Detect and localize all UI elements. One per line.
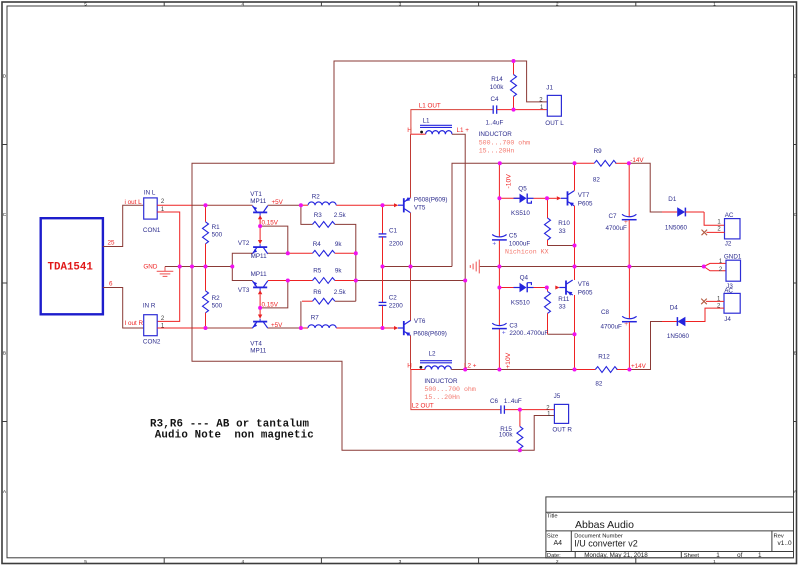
svg-text:33: 33 [559, 304, 567, 311]
svg-text:2: 2 [556, 2, 559, 8]
wire CON2 pin1 rail [157, 327, 205, 329]
svg-text:R12: R12 [598, 353, 610, 360]
svg-text:R9: R9 [594, 148, 603, 155]
svg-text:Rev: Rev [774, 533, 784, 539]
svg-text:D1: D1 [668, 196, 677, 203]
svg-text:R7: R7 [311, 314, 320, 321]
svg-text:D4: D4 [670, 304, 679, 311]
svg-text:-14V: -14V [630, 157, 644, 164]
resistor R6 2.5k [313, 289, 347, 304]
svg-text:5: 5 [84, 559, 87, 565]
wire L2 OUT row to C6 [411, 370, 501, 410]
transistor VT5 P608(P609) [394, 197, 448, 213]
transistor VT1 MP11 [250, 191, 267, 226]
svg-text:C7: C7 [609, 213, 618, 220]
svg-text:500...700 ohm: 500...700 ohm [479, 140, 530, 147]
IC U1 TDA1541 [41, 218, 103, 314]
resistor R2 (coil) [308, 194, 336, 206]
svg-text:1N5060: 1N5060 [667, 333, 690, 340]
svg-text:4700uF: 4700uF [606, 225, 628, 232]
connector J1 OUT L [539, 85, 564, 127]
capacitor C4 1..4uF [486, 96, 504, 127]
connector J CON1 (IN L) [143, 190, 165, 234]
diode D4 1N5060 [662, 304, 689, 340]
svg-text:15...20Hn: 15...20Hn [479, 147, 515, 154]
svg-text:B: B [3, 351, 6, 357]
wire +5V L rail VT1 to VT5 [268, 204, 394, 206]
wire L2 left lead [411, 369, 425, 371]
wire R5 row left [268, 280, 313, 282]
connector J2 AC [717, 212, 740, 247]
svg-text:L1: L1 [423, 118, 431, 125]
svg-text:C: C [794, 212, 798, 218]
svg-text:VT6: VT6 [414, 318, 426, 325]
svg-text:D: D [3, 74, 7, 80]
svg-text:Monday, May 21, 2018: Monday, May 21, 2018 [584, 552, 648, 559]
svg-text:1..4uF: 1..4uF [486, 120, 504, 127]
wire C6 to J5 pin2 [505, 409, 555, 411]
wire R6 left to +5V R rail [302, 300, 313, 302]
svg-text:A4: A4 [554, 540, 563, 547]
svg-text:2.5k: 2.5k [334, 212, 347, 219]
svg-text:0.15V: 0.15V [262, 220, 279, 227]
svg-text:CON2: CON2 [143, 339, 161, 346]
svg-text:Audio Note non magnetic: Audio Note non magnetic [155, 430, 314, 442]
svg-text:R3: R3 [314, 212, 323, 219]
svg-text:100k: 100k [499, 432, 514, 439]
svg-text:IN R: IN R [143, 302, 156, 309]
transistor VT2 MP11 [238, 226, 268, 260]
connector J CON2 (IN R) [143, 302, 165, 345]
svg-text:R6: R6 [313, 289, 322, 296]
svg-text:of: of [737, 552, 743, 559]
svg-text:AC: AC [725, 212, 734, 219]
resistor R14 100k [490, 61, 517, 110]
wire VT7 emitter down to GND [574, 206, 576, 267]
inductor L1 [420, 118, 452, 135]
wire TDA pin25 to CON1 [103, 205, 144, 246]
wire -14V rail [452, 163, 662, 266]
svg-text:L1 +: L1 + [457, 127, 470, 134]
wire J2 pin2 stub (no connect) [707, 231, 725, 233]
svg-text:C2: C2 [389, 295, 398, 302]
svg-text:500...700 ohm: 500...700 ohm [424, 386, 475, 393]
svg-text:D: D [794, 74, 798, 80]
wire R11 bottom to VT6 emitter [548, 333, 575, 335]
svg-text:3: 3 [399, 2, 402, 8]
capacitor C6 1..4uF [490, 398, 522, 414]
diode Q4 KS510 [499, 275, 546, 307]
wire L2 right / +10V rail start [451, 369, 499, 371]
wire GND rail into J3 pins [704, 263, 726, 270]
svg-text:H: H [407, 127, 412, 134]
svg-text:0.15V: 0.15V [262, 301, 279, 308]
wire VT5 collector down to GND bus [410, 213, 412, 267]
resistor R11 33 [545, 288, 570, 335]
svg-text:1: 1 [713, 2, 716, 8]
wire -10V column (rail to Q5 to C5 to GND) [498, 163, 500, 266]
svg-text:Size: Size [547, 533, 558, 539]
svg-text:R5: R5 [313, 268, 322, 275]
wire J4 pin1 stub (no connect) [706, 300, 724, 302]
resistor R2 (input) [203, 267, 223, 329]
connector J3 GND1 [719, 253, 742, 290]
resistor R15 100k [499, 410, 523, 451]
svg-text:500: 500 [212, 303, 223, 310]
capacitor C7 4700uF [606, 163, 637, 266]
svg-text:9k: 9k [335, 268, 343, 275]
wire GND rail right segment [499, 266, 703, 268]
wire GND mid segment [383, 266, 453, 268]
ground earth symbol left [157, 267, 174, 277]
no-connect X at J2 pin2 [702, 230, 708, 236]
svg-text:R2: R2 [312, 194, 321, 201]
svg-text:J4: J4 [724, 316, 731, 323]
capacitor C8 4700uF [601, 267, 637, 370]
svg-text:IN L: IN L [144, 190, 156, 197]
svg-text:P605: P605 [578, 200, 593, 207]
svg-text:L2 OUT: L2 OUT [412, 403, 434, 410]
svg-text:Date:: Date: [547, 553, 561, 559]
svg-text:9k: 9k [335, 241, 343, 248]
svg-text:25: 25 [108, 240, 116, 247]
wire J4 pin2 to D4 [686, 308, 724, 321]
wire L1 right to bus [452, 134, 465, 280]
wire vertical bus R5-R6 [355, 281, 357, 302]
svg-text:GND1: GND1 [724, 253, 742, 260]
connector J4 AC [717, 288, 740, 324]
svg-text:R1: R1 [212, 224, 221, 231]
wire big loop from J1 pin2 to J5 pin1 [192, 61, 554, 450]
connector J5 OUT R [546, 393, 572, 433]
wire R4 to vertical bus [335, 252, 356, 254]
svg-text:2: 2 [556, 559, 559, 565]
svg-text:1: 1 [713, 559, 716, 565]
svg-text:100k: 100k [490, 84, 505, 91]
svg-text:C: C [3, 212, 7, 218]
transistor VT7 P605 [557, 191, 593, 208]
resistor R5 9k [313, 268, 343, 284]
svg-text:1000uF: 1000uF [509, 240, 531, 247]
svg-text:C6: C6 [490, 398, 499, 405]
svg-text:J1: J1 [546, 85, 553, 92]
capacitor C1 2200 [379, 205, 404, 266]
capacitor C2 2200 [379, 267, 404, 329]
svg-text:P605: P605 [578, 289, 593, 296]
svg-text:MP11: MP11 [250, 198, 266, 205]
title block [546, 497, 794, 558]
svg-text:J5: J5 [554, 393, 561, 400]
wire +10V column (Q4 to C3) [498, 267, 500, 370]
svg-text:5: 5 [84, 2, 87, 8]
svg-text:+: + [492, 241, 496, 248]
wire 0.15V bottom node to R5 [260, 281, 288, 308]
svg-text:i out L: i out L [125, 199, 143, 206]
wire R3 to vertical bus [335, 224, 356, 253]
svg-text:C5: C5 [509, 233, 518, 240]
svg-text:I out R: I out R [125, 320, 144, 327]
svg-text:Q5: Q5 [518, 185, 527, 192]
wire TDA pin6 to CON2 [103, 288, 144, 329]
svg-text:2200: 2200 [389, 240, 404, 247]
svg-text:MP11: MP11 [251, 271, 267, 278]
wire VT7 collector to -14V rail [574, 163, 576, 191]
svg-text:R14: R14 [491, 76, 503, 83]
svg-text:1..4uF: 1..4uF [504, 398, 522, 405]
wire R6 row [335, 300, 356, 302]
svg-text:Abbas Audio: Abbas Audio [575, 519, 634, 531]
svg-text:6: 6 [109, 281, 113, 288]
wire 0.15V top node to R4 [260, 226, 288, 253]
wire CON1 pin1 down to CON2 pin2 [157, 212, 180, 321]
svg-text:VT6: VT6 [578, 281, 590, 288]
svg-text:4: 4 [241, 559, 244, 565]
svg-text:+: + [624, 321, 628, 328]
svg-text:R2: R2 [212, 295, 221, 302]
wire R10 bottom to VT7 emitter [548, 245, 575, 247]
resistor R9 82 [593, 148, 616, 183]
svg-text:INDUCTOR: INDUCTOR [424, 378, 458, 385]
svg-text:2200: 2200 [389, 302, 404, 309]
svg-text:TDA1541: TDA1541 [48, 262, 94, 274]
svg-text:VT5: VT5 [414, 205, 426, 212]
svg-text:2200..4700uF: 2200..4700uF [509, 330, 548, 337]
svg-text:+10V: +10V [505, 352, 512, 369]
diode D1 1N5060 [662, 196, 704, 232]
wire VT7 base node to R10 [547, 197, 557, 199]
svg-text:Sheet: Sheet [684, 553, 700, 559]
svg-text:L2: L2 [429, 351, 437, 358]
wire +5V R rail VT4 to VT6 [268, 327, 394, 329]
transistor VT4 MP11 [250, 308, 267, 354]
svg-text:1: 1 [716, 552, 720, 559]
svg-text:4: 4 [241, 2, 244, 8]
ground earth symbol right (rotated) [470, 260, 479, 274]
wire D1 to J2 pin1 [704, 212, 724, 225]
svg-text:R3,R6 --- AB or tantalum: R3,R6 --- AB or tantalum [150, 418, 309, 430]
wire VT5 emitter up to L1 [410, 134, 412, 198]
wire VT6 collector to GND [574, 267, 576, 281]
wire R4 row left [268, 252, 288, 254]
wire VT6 emitter down to L2 [410, 336, 412, 370]
svg-text:15...20Hn: 15...20Hn [424, 394, 460, 401]
svg-text:R4: R4 [313, 241, 322, 248]
resistor R1 [203, 205, 223, 266]
wire earth stem to GND rail right [480, 266, 500, 268]
wire +10V rail [499, 322, 662, 370]
svg-text:CON1: CON1 [143, 227, 161, 234]
svg-text:+: + [502, 329, 506, 336]
svg-text:+14V: +14V [631, 363, 647, 370]
diode Q5 KS510 [499, 185, 547, 217]
svg-text:P608(P609): P608(P609) [413, 331, 447, 338]
capacitor C3 2200..4700uF [492, 322, 548, 337]
transistor VT6 P605 [555, 280, 593, 296]
svg-text:C4: C4 [491, 96, 500, 103]
wire L1 left lead [411, 133, 426, 135]
wire C4 to J1 pin1 [497, 109, 547, 111]
transistor VT3 MP11 [238, 271, 268, 308]
resistor R3 2.5k [313, 212, 347, 227]
svg-text:1: 1 [758, 552, 762, 559]
svg-text:KS510: KS510 [511, 210, 530, 217]
svg-text:R11: R11 [558, 296, 570, 303]
svg-text:H: H [407, 362, 412, 369]
svg-text:J2: J2 [725, 241, 732, 248]
wire GND rail left [165, 266, 233, 268]
inductor L2 [420, 351, 453, 370]
svg-text:Title: Title [547, 514, 558, 520]
resistor R12 82 [595, 353, 617, 387]
svg-text:82: 82 [593, 176, 601, 183]
svg-text:OUT L: OUT L [545, 120, 564, 127]
svg-text:500: 500 [212, 232, 223, 239]
resistor R4 9k [313, 241, 343, 256]
svg-text:4700uF: 4700uF [601, 323, 623, 330]
svg-text:2.5k: 2.5k [334, 289, 347, 296]
svg-text:I/U converter v2: I/U converter v2 [574, 538, 638, 548]
wire vertical bus R4-R5 [355, 253, 357, 280]
wire CON1 pin2 rail [157, 204, 192, 206]
svg-text:OUT R: OUT R [552, 426, 572, 433]
svg-text:C1: C1 [389, 227, 398, 234]
wire L1+/L2+ bus lower [464, 281, 466, 370]
svg-text:v1..0: v1..0 [778, 540, 792, 547]
wire GND bus down to VT6 [410, 267, 412, 322]
svg-text:AC: AC [724, 288, 733, 295]
svg-text:C8: C8 [601, 309, 610, 316]
svg-text:82: 82 [595, 381, 603, 388]
svg-text:Q4: Q4 [520, 275, 529, 282]
svg-text:GND: GND [143, 263, 157, 270]
svg-text:L1 OUT: L1 OUT [419, 103, 441, 110]
wire R3 row [301, 205, 313, 224]
svg-text:C3: C3 [509, 322, 518, 329]
svg-text:-10V: -10V [505, 174, 512, 189]
capacitor C5 1000uF [492, 233, 530, 248]
no-connect X at J4 pin1 [701, 299, 707, 305]
svg-text:1N5060: 1N5060 [665, 224, 688, 231]
transistor VT6 P608(P609) [394, 318, 447, 337]
svg-text:B: B [794, 351, 797, 357]
svg-text:INDUCTOR: INDUCTOR [479, 131, 513, 138]
svg-text:MP11: MP11 [250, 347, 266, 354]
wire VT6 emitter down to +10V rail [574, 295, 576, 370]
svg-text:VT3: VT3 [238, 287, 250, 294]
svg-text:MP11: MP11 [251, 253, 267, 260]
wire L1 OUT row to C4 [411, 110, 493, 135]
svg-text:VT7: VT7 [578, 192, 590, 199]
svg-text:P608(P609): P608(P609) [414, 197, 448, 204]
resistor R10 33 [545, 198, 571, 245]
resistor R7 (coil) [308, 314, 336, 328]
wire R5 row right to L1+/L2+ bus [335, 280, 465, 282]
wire VT2 emitter to gnd/R5 row [232, 253, 252, 280]
svg-text:Nichicon KX: Nichicon KX [505, 249, 549, 256]
svg-text:VT2: VT2 [238, 240, 250, 247]
svg-text:33: 33 [559, 228, 567, 235]
svg-text:KS510: KS510 [511, 300, 530, 307]
svg-text:3: 3 [399, 559, 402, 565]
svg-text:R10: R10 [558, 220, 570, 227]
